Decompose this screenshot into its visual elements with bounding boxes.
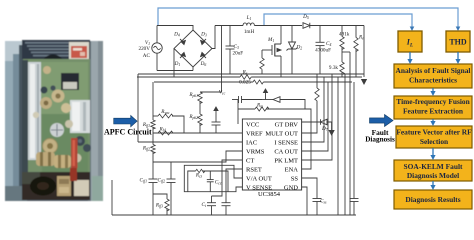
svg-text:Rb1: Rb1 xyxy=(159,127,167,133)
svg-text:Ccz: Ccz xyxy=(215,180,222,186)
svg-text:RSET: RSET xyxy=(246,167,262,174)
svg-text:Diagnosis Results: Diagnosis Results xyxy=(405,195,460,204)
svg-text:VREF: VREF xyxy=(246,131,263,138)
svg-text:Rvac: Rvac xyxy=(160,109,170,115)
svg-text:Diagnosis Model: Diagnosis Model xyxy=(407,171,459,180)
svg-text:Ct: Ct xyxy=(201,202,206,208)
svg-text:Vcc: Vcc xyxy=(219,90,226,96)
svg-text:Rs: Rs xyxy=(242,70,248,76)
svg-text:Selection: Selection xyxy=(420,137,448,146)
svg-text:L1: L1 xyxy=(246,15,252,21)
svg-text:20uF: 20uF xyxy=(233,51,244,57)
svg-text:APFC Circuit: APFC Circuit xyxy=(104,128,152,137)
svg-text:VRMS: VRMS xyxy=(246,149,265,156)
svg-text:9.3k: 9.3k xyxy=(329,65,338,71)
svg-text:220V: 220V xyxy=(138,46,150,52)
svg-text:ENA: ENA xyxy=(285,167,299,174)
svg-text:IAC: IAC xyxy=(246,140,257,147)
svg-text:C3: C3 xyxy=(234,44,239,50)
svg-text:UC3854: UC3854 xyxy=(258,191,281,198)
svg-text:CT: CT xyxy=(246,158,254,165)
svg-text:GND: GND xyxy=(284,185,298,192)
svg-text:Feature Vector after RF: Feature Vector after RF xyxy=(396,128,472,137)
svg-text:THD: THD xyxy=(449,38,467,47)
svg-text:Css: Css xyxy=(320,199,327,205)
svg-text:Rpk2: Rpk2 xyxy=(188,114,198,120)
svg-text:MULT OUT: MULT OUT xyxy=(265,131,298,138)
svg-text:Rff3: Rff3 xyxy=(155,203,163,209)
svg-text:Rff2: Rff2 xyxy=(142,146,150,152)
svg-text:CA OUT: CA OUT xyxy=(274,149,298,156)
svg-text:SS: SS xyxy=(291,176,299,183)
svg-text:VCC: VCC xyxy=(246,122,259,129)
svg-text:0.025: 0.025 xyxy=(239,80,251,86)
svg-text:Rm: Rm xyxy=(256,103,263,109)
svg-text:M1: M1 xyxy=(267,37,274,43)
svg-text:Time-frequency Fusion: Time-frequency Fusion xyxy=(396,97,469,106)
svg-text:D3: D3 xyxy=(200,32,207,38)
svg-text:V/A OUT: V/A OUT xyxy=(246,176,272,183)
svg-text:Feature Extraction: Feature Extraction xyxy=(403,106,463,115)
svg-text:PK LMT: PK LMT xyxy=(274,158,298,165)
svg-text:SOA-KELM Fault: SOA-KELM Fault xyxy=(404,162,463,171)
svg-text:C4: C4 xyxy=(326,41,331,47)
svg-text:Re: Re xyxy=(358,35,364,41)
svg-text:Characteristics: Characteristics xyxy=(409,76,457,85)
svg-text:Diagnosis: Diagnosis xyxy=(365,136,395,144)
svg-text:D6: D6 xyxy=(200,61,207,67)
svg-text:GT DRV: GT DRV xyxy=(275,122,299,129)
svg-text:AC: AC xyxy=(143,53,151,59)
svg-text:1mH: 1mH xyxy=(244,29,255,35)
svg-text:D4: D4 xyxy=(173,32,180,38)
svg-text:D1: D1 xyxy=(174,61,181,67)
svg-text:Cff2: Cff2 xyxy=(158,178,166,184)
svg-text:Cff1: Cff1 xyxy=(140,178,148,184)
svg-text:Rcz: Rcz xyxy=(195,173,203,179)
svg-text:Rff1: Rff1 xyxy=(142,122,150,128)
svg-text:Analysis of Fault Signal: Analysis of Fault Signal xyxy=(396,66,471,75)
svg-text:Rpk1: Rpk1 xyxy=(188,92,198,98)
svg-text:D2: D2 xyxy=(296,45,303,51)
svg-text:4700uF: 4700uF xyxy=(315,48,331,54)
svg-text:I SENSE: I SENSE xyxy=(274,140,298,147)
svg-text:491k: 491k xyxy=(339,32,350,38)
svg-text:D5: D5 xyxy=(302,14,309,20)
